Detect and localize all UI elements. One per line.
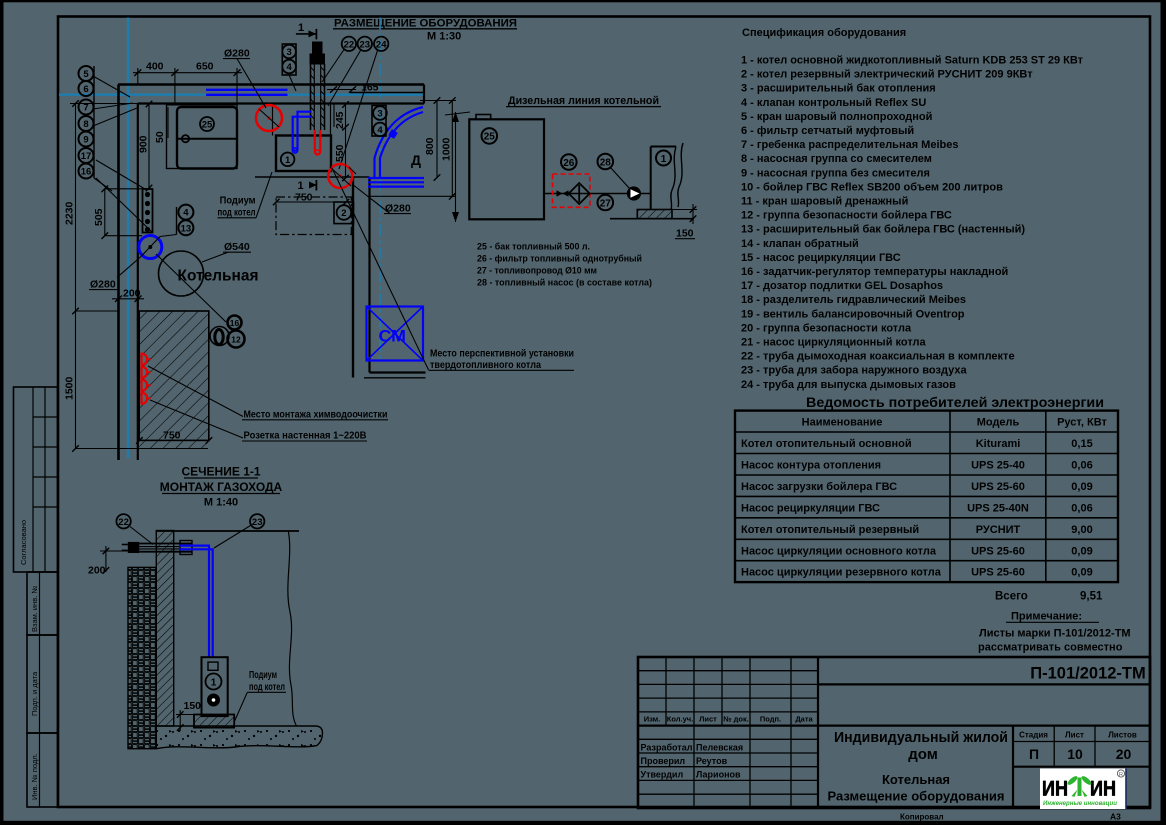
svg-text:19 - вентиль балансировочный O: 19 - вентиль балансировочный Oventrop	[741, 308, 965, 320]
svg-text:1: 1	[285, 155, 291, 166]
blue pipe loop at boiler	[298, 112, 312, 150]
svg-text:8: 8	[83, 119, 88, 130]
svg-text:Котел отопительный основной: Котел отопительный основной	[741, 438, 912, 450]
svg-text:200: 200	[123, 288, 141, 300]
axis line horizontal (cyan)	[59, 93, 425, 95]
svg-text:Насос рециркуляции ГВС: Насос рециркуляции ГВС	[741, 502, 880, 514]
stadia values	[1029, 746, 1132, 762]
room label circle	[159, 251, 204, 296]
tank filler cap	[476, 115, 491, 120]
svg-text:3: 3	[377, 109, 382, 120]
svg-text:245: 245	[334, 111, 346, 129]
svg-text:рассматривать совместно: рассматривать совместно	[978, 642, 1123, 654]
revision grid verticals	[666, 657, 791, 808]
dim 2230	[75, 104, 77, 312]
svg-text:200: 200	[88, 565, 106, 577]
svg-text:550: 550	[334, 144, 346, 162]
chimney stack: top cap	[313, 42, 323, 54]
wall sockets (red)	[142, 353, 151, 405]
dim 1500	[75, 311, 77, 449]
svg-text:Ведомость потребителей электро: Ведомость потребителей электроэнергии	[806, 395, 1104, 410]
svg-text:4: 4	[183, 208, 189, 219]
stadia header	[1019, 731, 1137, 740]
svg-text:1: 1	[298, 22, 304, 34]
left wall inner line	[137, 104, 139, 461]
callout box 3/4 left	[282, 44, 296, 75]
logo	[1040, 769, 1126, 810]
svg-text:А3: А3	[1110, 812, 1121, 822]
svg-text:№ док.: № док.	[723, 715, 749, 724]
interior wall line a	[352, 177, 354, 378]
svg-text:27: 27	[600, 198, 612, 209]
leader to future solid fuel boiler label	[332, 168, 429, 370]
svg-text:0,15: 0,15	[1071, 438, 1092, 450]
dim chain 400/650	[137, 68, 139, 85]
svg-text:26: 26	[563, 158, 575, 169]
svg-text:13: 13	[181, 223, 192, 234]
svg-text:0,09: 0,09	[1071, 545, 1092, 557]
boiler pit verticals	[272, 104, 274, 136]
header labels	[644, 715, 814, 724]
svg-text:R: R	[1119, 772, 1123, 778]
hatched wall section	[156, 531, 173, 727]
svg-text:Ø280: Ø280	[224, 48, 250, 60]
table header	[802, 417, 1108, 429]
svg-text:Согласовано: Согласовано	[19, 520, 28, 565]
axis line vertical B (cyan dash-dot)	[379, 18, 381, 362]
svg-text:UPS 25-60: UPS 25-60	[971, 481, 1025, 493]
outer page border	[0, 0, 4, 825]
svg-text:МОНТАЖ ГАЗОХОДА: МОНТАЖ ГАЗОХОДА	[160, 480, 283, 494]
ground concrete band	[156, 726, 322, 749]
svg-text:10: 10	[1067, 746, 1083, 762]
svg-text:Индивидуальный жилой: Индивидуальный жилой	[834, 729, 1008, 746]
svg-text:2: 2	[341, 208, 346, 219]
svg-text:Подиум: Подиум	[220, 196, 256, 207]
svg-text:СМ: СМ	[379, 327, 407, 346]
callout 27	[598, 195, 614, 211]
svg-text:Инженерные инновации: Инженерные инновации	[1043, 800, 1118, 807]
leader blue sleeve to device cluster	[156, 254, 226, 322]
svg-text:П-101/2012-ТМ: П-101/2012-ТМ	[1030, 665, 1146, 683]
dim 800 door	[420, 100, 456, 102]
svg-text:Kiturami: Kiturami	[976, 438, 1021, 450]
podium section	[194, 715, 234, 728]
svg-text:0,06: 0,06	[1071, 460, 1092, 472]
dim 150 section	[176, 714, 194, 716]
shutoff valve (bowtie)	[557, 190, 569, 197]
callout box 3/4 right	[372, 106, 386, 137]
svg-text:Стадия: Стадия	[1019, 731, 1048, 740]
svg-text:165: 165	[361, 82, 379, 94]
fuel pump	[627, 187, 640, 200]
ceiling line	[156, 530, 299, 532]
revision grid horizontals	[638, 671, 818, 795]
wall return bottom	[364, 377, 426, 379]
svg-text:Лист: Лист	[699, 715, 717, 724]
svg-text:800: 800	[424, 137, 436, 155]
wall sleeve red circle 2	[328, 164, 352, 188]
svg-text:17 - дозатор подлитки GEL Dosa: 17 - дозатор подлитки GEL Dosaphos	[741, 280, 943, 292]
svg-text:UPS 25-60: UPS 25-60	[971, 567, 1025, 579]
wall radiator (electric boiler)	[143, 189, 153, 233]
signature rows	[641, 742, 744, 779]
boiler 1	[276, 136, 331, 172]
svg-text:14 - клапан обратный: 14 - клапан обратный	[741, 238, 859, 250]
svg-text:Ø280: Ø280	[90, 279, 116, 291]
leader 22 to chimney	[322, 50, 344, 83]
svg-text:Взам. инв. №: Взам. инв. №	[30, 586, 39, 632]
svg-text:Реутов: Реутов	[696, 756, 728, 766]
svg-text:25: 25	[202, 120, 213, 131]
fuel tank outer cabinet	[167, 105, 238, 169]
svg-text:750: 750	[163, 430, 181, 442]
svg-text:400: 400	[146, 61, 164, 73]
svg-text:Ларионов: Ларионов	[696, 770, 741, 780]
callout 25	[200, 117, 214, 131]
svg-text:8 - насосная группа со смесите: 8 - насосная группа со смесителем	[741, 153, 932, 165]
approval stamp box (Согласовано)	[14, 387, 58, 572]
svg-text:Разработал: Разработал	[641, 742, 693, 752]
svg-text:UPS 25-40N: UPS 25-40N	[967, 502, 1029, 514]
leaders from callout column	[93, 76, 130, 97]
svg-text:1500: 1500	[64, 376, 76, 400]
door opening pipes (blue)	[368, 177, 424, 179]
svg-text:3: 3	[286, 47, 291, 58]
svg-text:Насос циркуляции основного кот: Насос циркуляции основного котла	[741, 545, 937, 557]
svg-text:16: 16	[81, 167, 92, 178]
svg-text:Место перспективной установки: Место перспективной установки	[430, 348, 574, 360]
svg-text:150: 150	[676, 228, 694, 240]
svg-text:505: 505	[93, 208, 105, 226]
svg-text:11 - кран шаровый дренажный: 11 - кран шаровый дренажный	[741, 196, 908, 208]
fuel tank 25	[177, 107, 237, 169]
extension line niche	[333, 103, 335, 127]
table grid	[735, 411, 1118, 582]
svg-text:2230: 2230	[64, 201, 76, 225]
svg-text:21 - насос циркуляционный котл: 21 - насос циркуляционный котла	[741, 337, 927, 349]
svg-text:20 - группа безопасности котла: 20 - группа безопасности котла	[741, 322, 912, 334]
callout 25	[482, 128, 498, 144]
title block outer box	[638, 657, 1150, 808]
svg-text:М 1:40: М 1:40	[204, 497, 238, 509]
svg-text:РАЗМЕЩЕНИЕ ОБОРУДОВАНИЯ: РАЗМЕЩЕНИЕ ОБОРУДОВАНИЯ	[334, 18, 517, 30]
dim 505	[104, 189, 106, 236]
svg-text:900: 900	[138, 135, 150, 153]
door blue curve	[375, 107, 424, 177]
leader 24 to sleeve	[339, 51, 378, 170]
svg-text:Модель: Модель	[977, 417, 1020, 429]
svg-text:26 - фильтр топливный однотруб: 26 - фильтр топливный однотрубный	[477, 254, 642, 265]
svg-text:Насос циркуляции резервного ко: Насос циркуляции резервного котла	[741, 567, 942, 579]
svg-text:17: 17	[81, 151, 92, 162]
top wall outer line	[118, 83, 424, 86]
svg-text:Лист: Лист	[1065, 731, 1084, 740]
callout 22 section	[116, 514, 130, 528]
callouts 22 23 24	[342, 37, 356, 51]
svg-text:Дизельная линия котельной: Дизельная линия котельной	[508, 95, 659, 107]
svg-text:Изм.: Изм.	[644, 715, 661, 724]
svg-text:5 - кран шаровый полнопроходно: 5 - кран шаровый полнопроходной	[741, 111, 932, 123]
device cluster (dosing unit)	[210, 327, 229, 346]
svg-text:12: 12	[231, 335, 241, 345]
svg-text:Примечание:: Примечание:	[1011, 611, 1082, 623]
svg-text:150: 150	[184, 700, 202, 712]
svg-text:Размещение оборудования: Размещение оборудования	[827, 789, 1004, 804]
dim 200 section	[100, 550, 128, 552]
svg-text:Кол.уч.: Кол.уч.	[667, 715, 693, 724]
callout 2	[334, 202, 354, 224]
svg-text:16 - задатчик-регулятор темпер: 16 - задатчик-регулятор температуры накл…	[741, 266, 1008, 278]
svg-text:Спецификация оборудования: Спецификация оборудования	[742, 27, 906, 39]
svg-text:23 - труба для забора наружног: 23 - труба для забора наружного воздуха	[741, 365, 967, 377]
wall return top	[370, 371, 426, 373]
svg-text:24: 24	[376, 39, 387, 50]
svg-text:28: 28	[600, 157, 612, 168]
svg-text:UPS 25-60: UPS 25-60	[971, 545, 1025, 557]
svg-text:1 - котел основной жидкотоплив: 1 - котел основной жидкотопливный Saturn…	[741, 55, 1084, 67]
chimney wall hatch	[311, 67, 325, 127]
leader 28 to pump	[611, 168, 631, 190]
svg-text:Место монтажа химводоочистки: Место монтажа химводоочистки	[244, 409, 388, 421]
svg-text:РУСНИТ: РУСНИТ	[976, 524, 1021, 536]
future boiler dashed box	[276, 197, 351, 235]
svg-text:2 - котел резервный электричес: 2 - котел резервный электрический РУСНИТ…	[741, 69, 1033, 81]
wall sleeve red circle 1	[256, 105, 282, 131]
svg-text:1: 1	[661, 154, 667, 165]
dim 1000 tank	[455, 112, 457, 222]
dim 900	[148, 104, 150, 188]
stamp box Подп. и дата	[27, 635, 58, 733]
svg-text:Котел отопительный резервный: Котел отопительный резервный	[741, 524, 919, 536]
svg-text:Руст, КВт: Руст, КВт	[1057, 417, 1107, 429]
left wall outer line	[117, 85, 120, 461]
dim 50	[167, 107, 169, 138]
svg-text:Д: Д	[411, 152, 421, 168]
svg-text:ИН: ИН	[1090, 777, 1116, 801]
svg-text:СЕЧЕНИЕ 1-1: СЕЧЕНИЕ 1-1	[181, 465, 260, 479]
water treatment hatched area	[139, 311, 209, 440]
svg-text:Ø540: Ø540	[224, 241, 250, 253]
brick foundation wall	[128, 567, 156, 748]
boiler column (broken view)	[650, 147, 652, 211]
svg-text:6: 6	[83, 84, 88, 95]
boiler section	[202, 657, 228, 716]
svg-text:13 - расширительный бак бойлер: 13 - расширительный бак бойлера ГВС (нас…	[741, 224, 1025, 236]
svg-text:9: 9	[83, 135, 88, 146]
svg-text:6 - фильтр сетчатый муфтовый: 6 - фильтр сетчатый муфтовый	[741, 125, 914, 137]
svg-text:0,06: 0,06	[1071, 502, 1092, 514]
svg-text:1: 1	[298, 180, 304, 192]
dim 1000 door	[451, 101, 453, 197]
svg-text:Всего: Всего	[995, 591, 1028, 603]
svg-text:дом: дом	[908, 746, 938, 763]
svg-text:Котельная: Котельная	[882, 772, 950, 787]
svg-text:Подп. и дата: Подп. и дата	[30, 671, 39, 716]
table rows	[741, 438, 942, 579]
svg-text:4: 4	[286, 62, 292, 73]
svg-text:22 - труба дымоходная коаксиал: 22 - труба дымоходная коаксиальная в ком…	[741, 351, 1015, 363]
fuel pipe line	[544, 193, 651, 195]
svg-text:Инв. № подл.: Инв. № подл.	[30, 753, 39, 800]
svg-text:27 - топливопровод Ø10 мм: 27 - топливопровод Ø10 мм	[477, 266, 597, 277]
svg-text:650: 650	[196, 61, 214, 73]
heating pipes along wall (blue)	[206, 89, 288, 91]
svg-text:Пелевская: Пелевская	[696, 742, 743, 752]
callout 1	[656, 151, 671, 166]
svg-text:9 - насосная группа без смесит: 9 - насосная группа без смесителя	[741, 167, 930, 179]
blue flue pipe	[179, 546, 209, 657]
svg-text:4 - клапан контрольный Reflex: 4 - клапан контрольный Reflex SU	[741, 97, 926, 109]
dim 150 podium	[672, 209, 697, 211]
svg-text:П: П	[1029, 746, 1039, 762]
top wall inner line	[138, 102, 424, 104]
svg-text:Дата: Дата	[795, 715, 813, 724]
chimney tube outer walls	[310, 64, 312, 130]
podium hatched	[637, 210, 672, 219]
washing machine box (blue)	[367, 307, 424, 361]
chimney collar	[310, 54, 325, 64]
svg-text:7 - гребенка распределительная: 7 - гребенка распределительная Meibes	[741, 139, 958, 151]
svg-text:твердотопливного котла: твердотопливного котла	[430, 359, 541, 371]
callout 26	[561, 154, 577, 170]
callout 28	[598, 154, 614, 170]
svg-text:Розетка настенная 1~220В: Розетка настенная 1~220В	[244, 430, 367, 442]
chimney tube inner walls	[313, 64, 315, 130]
svg-text:Листы марки П-101/2012-ТМ: Листы марки П-101/2012-ТМ	[979, 628, 1131, 640]
svg-text:9,00: 9,00	[1071, 524, 1092, 536]
svg-text:UPS 25-40: UPS 25-40	[971, 460, 1025, 472]
green letter Zh as plant	[1066, 775, 1092, 797]
doc number cell bottom	[818, 683, 1150, 685]
axis line vertical A (cyan)	[127, 18, 129, 459]
svg-text:25: 25	[484, 132, 496, 143]
wall sleeve blue circle	[139, 236, 162, 259]
svg-text:Насос контура отопления: Насос контура отопления	[741, 460, 881, 472]
svg-text:12 - группа безопасности бойле: 12 - группа безопасности бойлера ГВС	[741, 210, 952, 222]
main divider	[817, 657, 819, 808]
niche bottom line	[255, 176, 370, 178]
callout column 5,6,7,8,9,17,16	[93, 66, 95, 178]
svg-text:22: 22	[344, 39, 355, 50]
svg-text:Подп.: Подп.	[760, 715, 781, 724]
svg-text:Насос загрузки бойлера ГВС: Насос загрузки бойлера ГВС	[741, 481, 897, 493]
svg-text:1: 1	[211, 677, 217, 688]
tank port	[182, 135, 189, 142]
leader 23 to chimney	[328, 51, 361, 107]
header row line	[638, 724, 1150, 726]
svg-text:Проверил: Проверил	[641, 756, 686, 766]
svg-text:50: 50	[154, 131, 166, 143]
svg-text:Подиум: Подиум	[249, 670, 277, 681]
svg-text:18 - разделитель гидравлически: 18 - разделитель гидравлический Meibes	[741, 294, 966, 306]
svg-text:Утвердил: Утвердил	[641, 770, 684, 780]
svg-text:5: 5	[83, 69, 89, 80]
svg-text:9,51: 9,51	[1080, 591, 1103, 603]
svg-text:0,09: 0,09	[1071, 567, 1092, 579]
wall niche line	[350, 92, 424, 94]
filter diamond	[569, 183, 590, 204]
svg-text:24 - труба для выпуска дымовых: 24 - труба для выпуска дымовых газов	[741, 379, 956, 391]
svg-text:23: 23	[360, 39, 371, 50]
svg-text:4: 4	[377, 125, 383, 136]
svg-text:под котел: под котел	[249, 682, 285, 693]
leader to socket label	[150, 400, 243, 438]
svg-text:Листов: Листов	[1108, 731, 1137, 740]
svg-text:15 - насос рециркуляции ГВС: 15 - насос рециркуляции ГВС	[741, 252, 901, 264]
svg-text:Котельная: Котельная	[178, 268, 259, 285]
svg-text:3 - расширительный бак отоплен: 3 - расширительный бак отопления	[741, 83, 936, 95]
svg-text:22: 22	[118, 517, 129, 528]
right wall corner vertical	[423, 85, 425, 104]
svg-text:1000: 1000	[441, 137, 453, 161]
callouts 4 and 13	[176, 207, 178, 235]
leader to chem label	[148, 366, 243, 417]
svg-text:М 1:30: М 1:30	[427, 31, 461, 43]
stadia divider	[1012, 726, 1014, 808]
red flue pipe down from chimney	[314, 130, 316, 152]
svg-text:под котел: под котел	[218, 208, 256, 219]
coaxial flue through wall	[128, 542, 140, 553]
svg-text:ИН: ИН	[1042, 777, 1068, 801]
svg-text:7: 7	[83, 103, 88, 114]
svg-text:16: 16	[230, 318, 240, 328]
svg-text:Наименование: Наименование	[802, 417, 883, 429]
filter unit red dashed box	[553, 174, 590, 207]
break line wavy	[288, 531, 297, 726]
fuel tank (schematic)	[469, 119, 544, 219]
svg-text:0,09: 0,09	[1071, 481, 1092, 493]
interior wall line b	[368, 177, 370, 373]
dim 245/550 right of chimney	[345, 105, 347, 179]
callout 23 section	[250, 514, 264, 528]
svg-text:23: 23	[252, 517, 263, 528]
stamp box Инв. № подл.	[27, 733, 58, 807]
stamp box Взам. инв. №	[27, 572, 58, 635]
svg-text:25 - бак топливный 500 л.: 25 - бак топливный 500 л.	[477, 242, 590, 253]
svg-text:28 - топливный насос (в состав: 28 - топливный насос (в составе котла)	[477, 278, 652, 289]
svg-text:Копировал: Копировал	[900, 813, 944, 822]
svg-text:20: 20	[1116, 746, 1132, 762]
svg-text:10 - бойлер ГВС Reflex SB200 о: 10 - бойлер ГВС Reflex SB200 объем 200 л…	[741, 181, 1003, 193]
